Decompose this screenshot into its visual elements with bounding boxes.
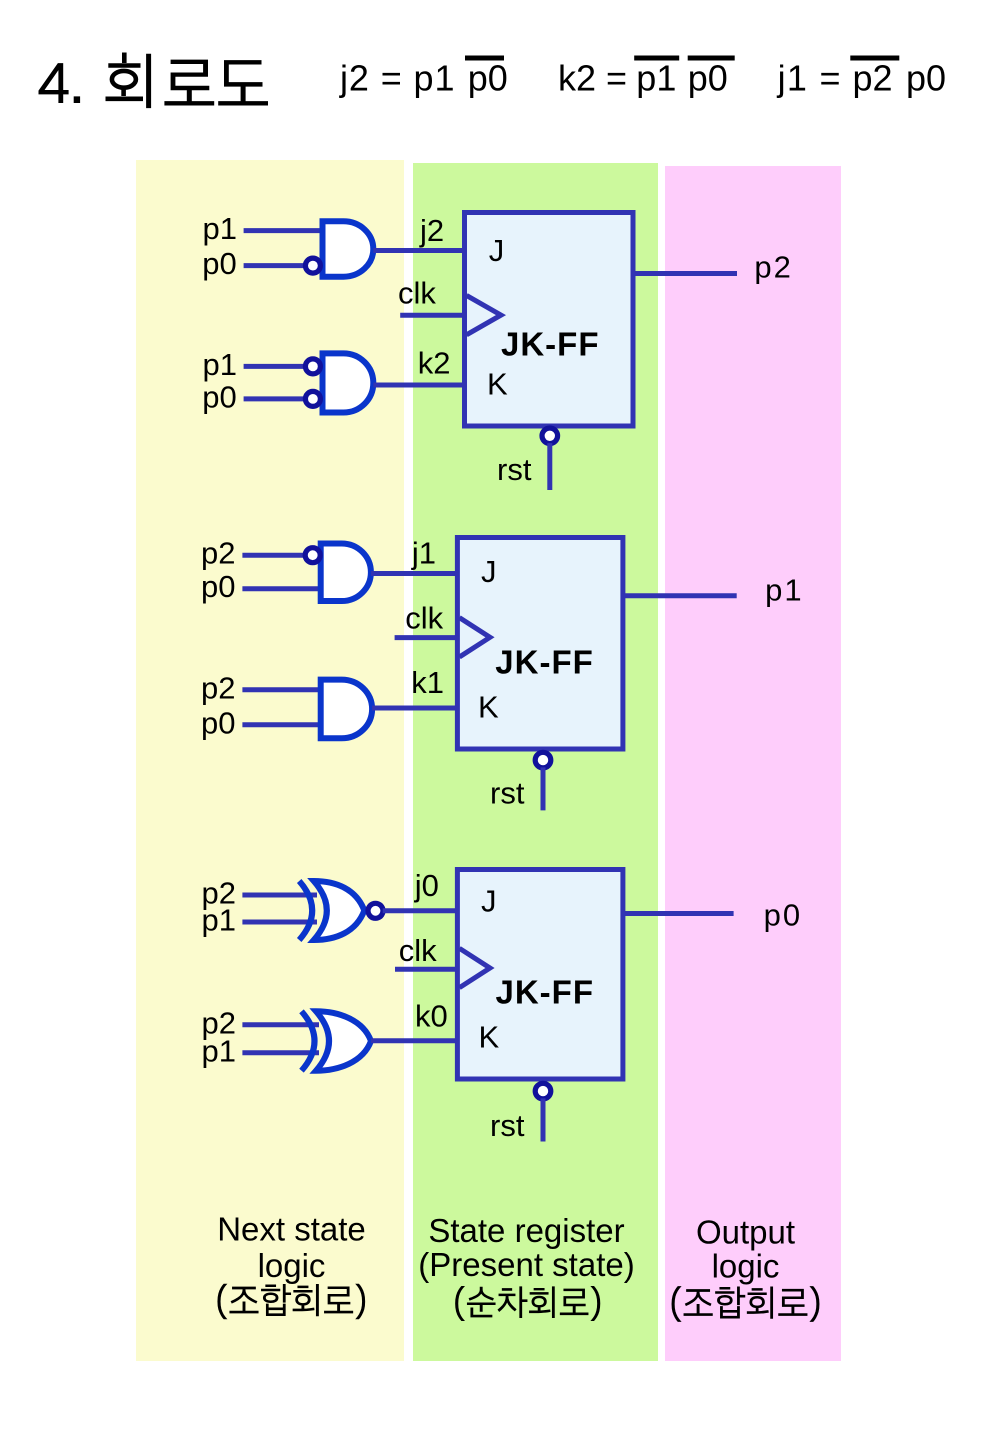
wire p0 to A2 bubble [244, 396, 306, 401]
output-logic band (pink) [665, 166, 841, 1361]
svg-text:p0: p0 [764, 897, 802, 932]
U3 rst bubble [535, 1083, 551, 1099]
svg-text:p2: p2 [754, 250, 792, 285]
wire p1 to X2 [242, 1050, 319, 1055]
svg-text:State register: State register [428, 1212, 624, 1249]
svg-text:p1: p1 [202, 1033, 236, 1068]
AND gate A4 (k1 = p2 p0) [321, 680, 372, 739]
U2 rst bubble [535, 752, 551, 768]
inverter bubble A2 p1 input [305, 359, 320, 374]
wire A2 output k2 to K [373, 383, 464, 388]
svg-text:logic: logic [258, 1247, 326, 1284]
svg-text:p0: p0 [468, 58, 508, 99]
wire p2 to X1 [242, 893, 317, 898]
wire X2 output k0 to K [371, 1038, 457, 1043]
svg-text:Output: Output [696, 1214, 795, 1251]
JK flip-flop U3 box [457, 870, 623, 1080]
U1 clk triangle [467, 295, 502, 334]
wire U3 rst [541, 1098, 546, 1141]
svg-text:p0: p0 [688, 58, 728, 99]
svg-text:k2: k2 [418, 346, 451, 381]
title char 회 (hand-drawn Malgun style) [106, 53, 149, 109]
U2 clk triangle [459, 618, 490, 657]
svg-text:JK-FF: JK-FF [496, 974, 595, 1011]
inverter bubble A3 p2 input [305, 548, 320, 563]
svg-text:K: K [478, 690, 499, 725]
svg-text:p0: p0 [202, 246, 236, 281]
wire p2 to A4 [242, 687, 320, 692]
JK flip-flop U2 box [457, 538, 623, 750]
U3 clk triangle [459, 948, 490, 987]
svg-text:rst: rst [490, 776, 525, 811]
svg-text:p2: p2 [853, 58, 893, 99]
XOR gate X1 (j0 = p2 xnor p1) body [314, 881, 365, 940]
svg-text:K: K [479, 1020, 500, 1055]
wire U3 Q output [621, 911, 733, 916]
svg-text:p1: p1 [202, 903, 236, 938]
wire U2 clk input [395, 635, 459, 640]
inverter bubble A2 p0 input [305, 391, 320, 406]
svg-text:clk: clk [405, 601, 443, 636]
svg-text:clk: clk [399, 933, 437, 968]
XOR gate X2 (k0 = p2 xor p1) input arc [302, 1011, 315, 1070]
wire X1 output j0 to J [383, 908, 457, 913]
svg-text:rst: rst [490, 1108, 525, 1143]
title: 4. 회로도 [39, 64, 79, 102]
state-register band (green) [413, 163, 658, 1361]
wire p0 to A1 bubble [244, 263, 306, 268]
svg-text:(Present state): (Present state) [418, 1246, 634, 1283]
svg-text:JK-FF: JK-FF [495, 644, 594, 681]
svg-text:p1: p1 [203, 211, 237, 246]
wire p1 to A1 [244, 228, 323, 233]
wire U1 Q output [632, 271, 738, 276]
svg-text:p0: p0 [201, 705, 235, 740]
wire p2 to A3 bubble [242, 553, 305, 558]
svg-text:p2: p2 [201, 670, 235, 705]
svg-text:Next state: Next state [217, 1210, 366, 1247]
svg-text:rst: rst [497, 452, 532, 487]
svg-text:clk: clk [398, 276, 436, 311]
svg-text:p0: p0 [906, 58, 946, 99]
wire p1 to A2 bubble [244, 364, 306, 369]
inverter bubble A1 p0 input [305, 258, 320, 273]
svg-text:j2 = p1: j2 = p1 [339, 58, 455, 99]
inverter bubble X1 output (XNOR) [368, 903, 383, 918]
AND gate A3 (j1 = !p2 p0) [321, 544, 371, 602]
wire p0 to A4 [242, 722, 320, 727]
AND gate A2 (k2 = !p1 !p0) [323, 353, 374, 412]
XOR gate X2 (k0 = p2 xor p1) body [316, 1011, 371, 1070]
JK flip-flop U1 box [465, 213, 634, 427]
XOR gate X1 (j0 = p2 xnor p1) input arc [299, 881, 312, 940]
svg-text:logic: logic [712, 1248, 780, 1285]
wire U1 clk input [400, 313, 466, 318]
svg-text:k1: k1 [411, 665, 444, 700]
svg-text:j2: j2 [419, 213, 444, 248]
AND gate A1 (j2 = p1 !p0) [323, 221, 374, 276]
wire U1 rst [547, 443, 552, 490]
next-state-logic band (yellow) [136, 160, 404, 1361]
svg-text:k2 =: k2 = [558, 58, 627, 99]
U1 rst bubble [542, 428, 558, 444]
svg-text:p2: p2 [201, 536, 235, 571]
wire U2 Q output [621, 593, 736, 598]
svg-text:JK-FF: JK-FF [501, 326, 600, 363]
svg-text:j1 =: j1 = [777, 58, 842, 99]
wire p0 to A3 [242, 586, 320, 591]
svg-text:k0: k0 [415, 998, 448, 1033]
svg-text:J: J [481, 884, 497, 919]
svg-text:j0: j0 [414, 868, 439, 903]
svg-text:p0: p0 [201, 569, 235, 604]
svg-text:p1: p1 [203, 347, 237, 382]
wire A4 output k1 to K [372, 706, 457, 711]
svg-text:p0: p0 [202, 379, 236, 414]
svg-text:p1: p1 [636, 58, 676, 99]
svg-text:J: J [481, 554, 497, 589]
svg-text:j1: j1 [411, 536, 436, 571]
wire U2 rst [541, 767, 546, 810]
svg-text:p1: p1 [765, 573, 803, 608]
wire U3 clk input [395, 967, 459, 972]
wire A3 output j1 to J [371, 571, 457, 576]
wire A1 output j2 to J [373, 248, 464, 253]
svg-text:J: J [489, 233, 505, 268]
svg-text:K: K [487, 367, 508, 402]
wire p2 to X2 [242, 1022, 319, 1027]
wire p1 to X1 [242, 920, 317, 925]
